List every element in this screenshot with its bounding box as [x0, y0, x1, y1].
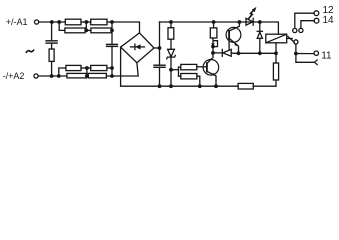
svg-text:+/-A1: +/-A1 [6, 17, 28, 27]
wire rail gap1 [81, 21, 91, 23]
wire DC minus from left vertex [121, 47, 239, 86]
wire emitter rail [231, 52, 276, 54]
resistor R6 [67, 73, 87, 78]
wire A2 rail [38, 75, 67, 77]
current arrow mark [211, 43, 215, 46]
diode D2 [222, 49, 231, 56]
wire R10 top [170, 22, 172, 28]
wire rail to bridge [107, 22, 140, 33]
wire C2 lower [111, 46, 113, 76]
wire zener to divider [170, 57, 172, 86]
freewheel diode D4 [257, 31, 262, 38]
node connector1 b [84, 29, 88, 33]
node com [294, 52, 298, 56]
wire DC minus right segment [253, 85, 276, 87]
wire R12 to ground [197, 76, 200, 86]
wire upper row to C2 [107, 67, 112, 69]
wire connector3 [86, 68, 88, 76]
led D3 [246, 18, 253, 25]
wire line 14 [301, 21, 314, 29]
node R12 ground [198, 84, 202, 88]
mechanical link dashes [287, 38, 293, 40]
resistor R2 [65, 28, 85, 33]
node Q2 emitter ground [214, 84, 218, 88]
contact arm [288, 37, 294, 43]
wire divider bracket [171, 69, 179, 71]
svg-text:14: 14 [323, 15, 335, 26]
terminal 14 [314, 18, 319, 23]
node zener ground [169, 84, 173, 88]
relay coil K1 [266, 34, 287, 43]
node C2 bottom [110, 74, 114, 78]
node zener chain top [169, 20, 173, 24]
resistor R9 vertical [49, 49, 54, 61]
resistor R8 [88, 73, 106, 78]
node J2 lower row top [57, 20, 61, 24]
node step loop [211, 45, 215, 49]
node coil return [274, 51, 278, 55]
svg-text:-/+A2: -/+A2 [3, 71, 25, 81]
node R13 top [212, 20, 216, 24]
node Q1 emitter [237, 51, 241, 55]
wire bracket stub top [179, 66, 181, 68]
wire coil feed [260, 22, 279, 34]
terminal 11 [314, 51, 318, 55]
transistor Q2 [203, 38, 219, 86]
resistor R13 vertical [210, 28, 217, 38]
terminal A1 [35, 20, 39, 24]
wire DC plus vertex stub [154, 47, 160, 49]
resistor R1 [65, 19, 81, 25]
wire lower row end [110, 29, 113, 31]
fixed contact 12 [293, 28, 297, 32]
wire connector1 top [85, 22, 87, 30]
node connector3 b [85, 74, 89, 78]
wire coil return [275, 43, 277, 63]
wire pivot down [296, 44, 314, 62]
wire line 12 [295, 13, 314, 28]
resistor R15 [238, 83, 253, 89]
wire Q1 base down [228, 39, 230, 50]
node C3 ground [158, 84, 162, 88]
node lower row to C2 [110, 29, 114, 33]
wire A1 rail [39, 21, 65, 23]
wire chain vertical top [51, 22, 53, 40]
bridge rectifier B1 [121, 33, 154, 63]
node C2 row [110, 66, 114, 70]
svg-text:11: 11 [321, 50, 332, 61]
contact pivot [294, 40, 298, 44]
wire line 11 [296, 53, 314, 55]
capacitor C3 [154, 65, 165, 67]
bridge diode triangle [135, 44, 140, 49]
wire R13 top [213, 22, 215, 28]
wire riser to upper row [59, 68, 66, 76]
resistor R5 [66, 65, 81, 70]
wire A2 rail to bridge [106, 63, 138, 76]
bridge diode wire [131, 46, 145, 48]
node connector1 a [84, 20, 88, 24]
node C2 top [110, 20, 114, 24]
wire step loop [213, 41, 218, 47]
wire bracket vertical [178, 67, 180, 76]
node J1 chain top [50, 20, 54, 24]
wire chain bottom [51, 61, 53, 76]
wire upper row gap [81, 67, 91, 69]
wire chain mid [51, 43, 53, 49]
resistor R14 vertical [273, 63, 278, 80]
resistor R12 [181, 74, 197, 79]
node DC plus [158, 46, 162, 50]
resistor R4 [91, 28, 111, 33]
wire R10 to zener [170, 39, 172, 49]
wire to diode D2 [213, 52, 222, 54]
bridge diode bar [134, 44, 136, 49]
capacitor C1 [46, 41, 57, 43]
wire DC plus rail [160, 21, 260, 23]
node divider feed [169, 68, 173, 72]
wire A2 rail gap [86, 75, 88, 77]
wire C2 upper [111, 22, 113, 44]
zener diode Z1 [167, 49, 176, 59]
resistor R11 [181, 64, 197, 69]
terminal A2 [34, 74, 38, 78]
led lightning arrow [249, 7, 257, 18]
wire C3 bottom [159, 67, 161, 86]
resistor R10 vertical [168, 28, 174, 40]
resistor R7 [91, 65, 107, 70]
node diode D2 anode [211, 51, 215, 55]
wire row gap upper [85, 29, 91, 31]
node led cathode [258, 20, 262, 24]
wire DC plus vertical [159, 22, 161, 65]
wire bracket stub bottom [179, 75, 181, 77]
node Q1 collector [238, 20, 242, 24]
ac symbol ~ [26, 50, 33, 52]
terminal 12 [314, 11, 319, 16]
capacitor C2 [107, 44, 118, 46]
wire R14 bottom [275, 80, 277, 86]
wire D4 vertical [259, 22, 261, 31]
node led return [258, 51, 262, 55]
node connector3 a [85, 66, 89, 70]
fixed contact 14 [299, 28, 303, 32]
wire drop to lower row [59, 22, 65, 30]
transistor Q1 [226, 22, 241, 54]
node riser bottom [57, 74, 61, 78]
wire R11 to Q2 base [197, 66, 207, 68]
chevron socket [315, 60, 318, 65]
resistor R3 [91, 19, 107, 25]
node chain bottom [50, 74, 54, 78]
